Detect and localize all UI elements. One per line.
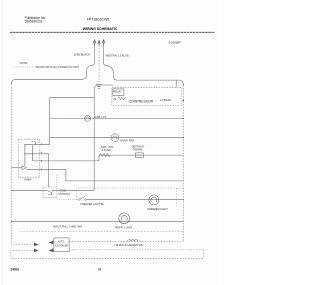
svg-text:AUTO: AUTO <box>58 241 65 244</box>
timer motor arrow <box>22 166 27 170</box>
junction evap fan/bus <box>183 137 184 138</box>
wire: cabinet lights line <box>50 117 184 119</box>
bottom return line <box>13 257 204 259</box>
header rule <box>10 31 215 33</box>
refrigerator light lamp <box>119 213 130 224</box>
wire: left lead down and across to left bus <box>11 45 94 85</box>
connector pair lower <box>34 249 39 253</box>
svg-text:CONTROL: CONTROL <box>59 193 71 196</box>
power cord lead L2 arrow <box>102 40 105 46</box>
freezer door switch <box>79 197 87 201</box>
liner outline vertical (dashed) <box>175 188 177 207</box>
defrost thermostat <box>135 153 143 158</box>
liner outline (dashed) <box>76 188 183 200</box>
wire: terminal 2 <box>25 144 50 146</box>
svg-text:24/63: 24/63 <box>10 267 19 271</box>
svg-text:TIMER: TIMER <box>23 177 31 181</box>
wire: compressor to right bus <box>182 99 184 101</box>
svg-text:COMPRESSOR: COMPRESSOR <box>129 100 154 104</box>
svg-text:WIRING SCHEMATIC: WIRING SCHEMATIC <box>83 27 118 31</box>
paper background <box>0 0 218 285</box>
ground lead (dashed) <box>98 45 100 83</box>
svg-text:LINE BLACK: LINE BLACK <box>74 53 90 57</box>
wire: left bus to ice maker <box>11 243 33 244</box>
svg-text:EVAP. FAN: EVAP. FAN <box>120 139 134 143</box>
wire: terminal 3 to heater <box>33 155 99 161</box>
overload OL + winding zigzag <box>113 97 126 101</box>
svg-text:THERM.: THERM. <box>133 147 144 151</box>
svg-text:L2 BLUE: L2 BLUE <box>160 98 171 102</box>
note dotted lead <box>14 66 34 68</box>
ice maker box <box>54 238 69 252</box>
left bus (vertical dashed) <box>10 84 12 243</box>
defrost timer box <box>19 139 40 177</box>
svg-text:NOTE:: NOTE: <box>20 61 28 65</box>
junction compressor/bus <box>183 100 184 101</box>
riser wire: cold control to relay <box>94 85 113 190</box>
svg-text:CAB. LTS.: CAB. LTS. <box>95 115 108 119</box>
timer common vertical <box>24 145 26 166</box>
svg-text:& FUSE: & FUSE <box>102 148 112 152</box>
svg-text:OL: OL <box>113 97 117 101</box>
wire: terminal 1 to bus <box>27 170 184 181</box>
power cord lead ground arrow <box>98 40 101 46</box>
svg-text:RELAY: RELAY <box>113 89 122 93</box>
publication number block <box>25 16 47 23</box>
wire: evap fan line <box>50 137 184 139</box>
ice maker mold heater <box>128 240 138 242</box>
svg-text:3-25/98T: 3-25/98T <box>168 40 180 44</box>
svg-text:FREEZER LIGHT: FREEZER LIGHT <box>147 207 168 211</box>
wire stub: neutral drop into compressor box <box>175 80 177 87</box>
compressor box <box>112 87 182 105</box>
wire: bus to timer motor <box>11 167 22 169</box>
wire: ice maker lower left to bottom line <box>11 251 34 259</box>
junction freezer light/bus <box>183 199 184 200</box>
svg-text:18: 18 <box>98 267 102 271</box>
label DEFROST THERM <box>132 145 145 152</box>
timer second vertical <box>32 145 34 161</box>
wire: terminal 4 down to cold control <box>25 154 49 187</box>
wire: light feed vertical <box>49 98 51 145</box>
svg-text:FREEZER LIGHT BL: FREEZER LIGHT BL <box>81 203 105 206</box>
junction neutral/left bus <box>10 220 12 224</box>
svg-text:SHOWN WITH NO POWER ON UNIT: SHOWN WITH NO POWER ON UNIT <box>35 65 79 69</box>
timer junction dots <box>24 144 25 145</box>
svg-text:FRT18G5CW5: FRT18G5CW5 <box>87 18 109 22</box>
cabinet outline dashed line <box>20 230 183 232</box>
right bus (vertical dashed) <box>182 85 184 241</box>
timer contact step <box>32 142 36 145</box>
wire: line bus to cold control <box>11 189 47 191</box>
terminal digits <box>41 143 43 172</box>
svg-text:I M MOLD HEATER WH: I M MOLD HEATER WH <box>114 243 143 247</box>
junction cab lights/bus <box>183 118 184 119</box>
label COLD CONTROL <box>59 190 71 196</box>
svg-text:ICE MAKER: ICE MAKER <box>55 244 68 247</box>
wire: neutral line <box>11 221 183 223</box>
wire: right drop to bottom line <box>203 250 205 258</box>
wire: right lead down and across to right bus <box>104 45 184 86</box>
defrost heater line <box>99 154 183 156</box>
chassis ground symbol <box>96 85 102 89</box>
wire: cold control to riser <box>57 189 94 191</box>
cold control box <box>43 187 57 198</box>
capillary tube dashed <box>56 175 58 188</box>
connector pair upper <box>34 243 39 247</box>
relay box <box>113 89 124 96</box>
svg-text:REFR. LIGHT: REFR. LIGHT <box>115 226 133 230</box>
wire: freezer light line <box>86 199 183 201</box>
freezer light lamp <box>149 195 159 205</box>
wire: ice maker upper right to bus <box>69 240 183 242</box>
defrost heater element <box>100 153 110 156</box>
wire: freezer light line dotted lead <box>57 199 79 201</box>
label DFR HEATER <box>101 145 114 152</box>
power cord lead L1 arrow <box>93 40 96 46</box>
cold control contacts <box>47 190 57 195</box>
svg-text:NEUTRAL LINE WH: NEUTRAL LINE WH <box>53 224 82 228</box>
scan edge shading left <box>1 0 4 285</box>
evap fan motor <box>111 134 119 142</box>
wire: ice maker lower right <box>69 249 203 251</box>
cabinet light lamp <box>85 116 91 122</box>
svg-text:5995390203: 5995390203 <box>25 20 43 24</box>
svg-text:NEUTRAL L2 BLUE: NEUTRAL L2 BLUE <box>106 54 129 58</box>
wire: light feed horizontal <box>50 97 95 99</box>
